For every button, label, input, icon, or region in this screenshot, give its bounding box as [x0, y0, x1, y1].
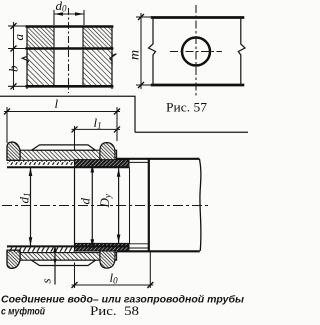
exposed thread inner bottom [128, 243, 149, 245]
break zigzag right [110, 53, 117, 67]
coupling top left rib [7, 142, 20, 160]
circle [182, 38, 210, 66]
block left edge [26, 26, 28, 89]
thread band top [8, 161, 76, 165]
pipe bottom wall (section) [75, 243, 130, 251]
break zigzag left [22, 53, 28, 69]
pipe top outer line [117, 158, 200, 160]
a/b dimension line [13, 22, 15, 90]
hole left edge [53, 26, 55, 87]
pipe end face [74, 167, 76, 246]
right edge with break [238, 18, 245, 86]
section boundary line [129, 167, 131, 243]
svg-text:Рис. 58: Рис. 58 [90, 303, 139, 318]
d0 extension right [83, 10, 85, 25]
horizontal centerline [170, 51, 222, 53]
pipe bottom outer line [117, 250, 200, 252]
top edge (thick) [151, 16, 245, 19]
svg-text:l: l [55, 96, 59, 111]
coupling top crown (raised band) [32, 145, 96, 150]
hatched lower-left region [27, 49, 54, 87]
svg-text:m: m [128, 50, 143, 60]
thread end line (thick) [148, 158, 150, 251]
coupling top wall band [7, 150, 117, 160]
hole right edge [82, 26, 84, 87]
d0 dimension line with arrows [54, 13, 84, 15]
svg-text:с муфтой: с муфтой [1, 306, 46, 318]
centerline of hole [68, 8, 70, 93]
border horizontal right [135, 131, 248, 133]
svg-text:s: s [39, 278, 54, 283]
block bottom edge (thick) [26, 85, 114, 88]
coupling bottom crown (raised band) [32, 260, 96, 265]
l0 extension left [74, 263, 76, 289]
m dimension line [140, 13, 142, 89]
svg-text:Рис. 57: Рис. 57 [166, 100, 208, 115]
left edge with break [149, 18, 156, 86]
svg-text:d: d [78, 198, 93, 205]
block right edge [111, 26, 113, 89]
svg-text:b: b [6, 65, 21, 72]
bore line bottom [7, 245, 130, 247]
exposed thread root bottom [128, 247, 149, 249]
axis centerline [2, 205, 209, 207]
l / l1 extension right [116, 107, 118, 141]
vertical centerline [195, 5, 197, 96]
coupling bottom right rib [100, 250, 115, 268]
block divider edge (thick) [26, 47, 114, 49]
a/b extension ticks [8, 25, 26, 27]
d0 extension left [53, 10, 55, 25]
l1 extension left (pipe end up) [74, 126, 76, 150]
coupling bottom left rib [7, 250, 20, 268]
border vertical [134, 96, 136, 132]
coupling top right rib [100, 143, 115, 161]
l0 dimension line [72, 284, 154, 286]
thread band bottom [8, 247, 76, 252]
bore line top [7, 166, 130, 168]
s dimension line [54, 246, 56, 285]
l dimension line [4, 111, 120, 113]
Dy dimension line [118, 168, 120, 243]
l1 dimension line [72, 128, 121, 130]
pipe break edge [200, 159, 201, 251]
m extension ticks [136, 16, 152, 18]
svg-text:a: a [11, 34, 26, 41]
coupling bottom wall band [7, 253, 117, 261]
hatched upper-right region [83, 26, 112, 49]
hatched upper-left region [27, 26, 54, 49]
d1 dimension line [30, 168, 32, 246]
slash arrows m [138, 14, 144, 20]
hatched lower-right region [83, 49, 112, 87]
pipe top wall (section) [75, 160, 130, 168]
bottom edge (thick) [151, 84, 245, 87]
d dimension line [91, 164, 93, 248]
border horizontal left [0, 95, 136, 97]
block top edge (thick) [26, 25, 114, 28]
exposed thread root top [128, 161, 149, 163]
slash arrows [11, 23, 17, 29]
l0 extension right [149, 252, 151, 289]
l extension left [6, 107, 8, 143]
